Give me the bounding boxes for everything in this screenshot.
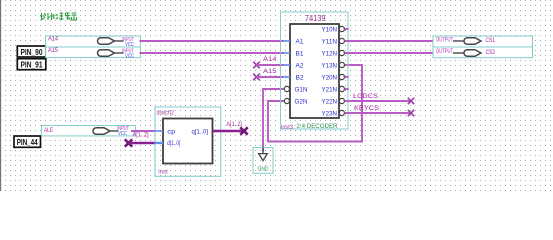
selection box around ALE input row [42,126,136,136]
wire Y12N to port CS2 [345,52,434,54]
svg-text:Y10N: Y10N [322,27,338,34]
svg-text:Y13N: Y13N [322,63,338,70]
port symbol (ALE row) [93,128,110,135]
pin Y11N (inverted) [322,38,345,45]
svg-text:inst3: inst3 [281,125,294,131]
selection box around A15 input row [46,47,141,58]
wire net A14 to pin A1 [140,40,284,42]
pin Y12N (inverted) [322,50,345,57]
port pin line (CS1 row) [453,40,464,42]
no-ERC cross on input bus end [125,139,132,146]
svg-text:Y21N: Y21N [322,87,338,94]
svg-text:CS2: CS2 [486,49,496,56]
selection box around IC 74139 [281,12,349,129]
no-ERC cross on A2 stub [253,62,260,69]
no-ERC cross on B2 stub [253,74,260,81]
selection box around CS1 output row [433,36,533,47]
svg-text:inst: inst [158,170,168,176]
svg-text:A1: A1 [296,39,304,46]
svg-text:LCDCS: LCDCS [353,93,378,100]
no-ERC cross on LCDCS wire end [408,98,414,104]
svg-text:B1: B1 [296,51,304,58]
svg-text:G2N: G2N [295,99,308,106]
svg-text:74139: 74139 [305,14,326,23]
wire net A15 to pin B1 [140,52,284,54]
svg-text:OUTPUT: OUTPUT [436,48,453,55]
svg-text:Y20N: Y20N [322,75,338,82]
port symbol (A14 row) [98,38,115,45]
svg-text:B2: B2 [296,75,304,82]
pin box PIN_44 [14,136,41,147]
dlatch2 pin cp [155,130,163,132]
svg-text:ALE: ALE [44,127,53,134]
svg-text:G1N: G1N [295,87,308,94]
port pin line (ALE row) [110,130,119,132]
bus q[1..0] out of dlatch2 [213,130,245,133]
svg-text:A14: A14 [263,56,277,63]
svg-text:PIN_90: PIN_90 [21,47,43,57]
svg-text:VCC: VCC [118,131,127,137]
wire stub Y21N [345,88,349,90]
wire ALE to dlatch2 cp [131,130,155,132]
wire stub to pin B2 [257,76,284,78]
no-ERC cross on output bus end [240,127,247,134]
port pin line (CS2 row) [453,52,464,54]
svg-text:Y11N: Y11N [322,39,338,46]
svg-text:d[1..0]: d[1..0] [167,140,180,147]
svg-text:A15: A15 [48,47,58,54]
pin G2N (inverted) [284,98,307,105]
pin Y22N (inverted) [322,98,345,105]
wire stub Y10N [345,28,349,30]
port pin line (A15 row) [115,52,124,54]
svg-text:q[1..0]: q[1..0] [192,129,209,136]
svg-text:CS1: CS1 [486,37,496,44]
svg-text:dlatch2: dlatch2 [157,110,175,116]
selection box around ground symbol [253,148,273,174]
svg-text:Y23N: Y23N [322,111,338,118]
svg-text:Y22N: Y22N [322,99,338,106]
ground symbol [258,148,269,173]
svg-text:KEYCS: KEYCS [354,105,379,112]
svg-text:A14: A14 [48,36,58,43]
pin Y23N (inverted) [322,110,345,117]
wire Y23N net KEYCS [345,112,412,114]
wire loop Y13N to G2N [268,65,362,142]
pin A1 [284,39,304,46]
IC 74139 body [290,24,339,118]
pin A2 [284,63,304,70]
wire G1N to ground [263,89,284,152]
svg-text:A[1..2]: A[1..2] [227,121,243,128]
wire stub Y20N [345,76,349,78]
svg-text:A2: A2 [296,63,304,70]
svg-text:PIN_44: PIN_44 [17,137,38,147]
port symbol (CS1 row) [464,38,481,45]
selection box around A14 input row [46,36,141,47]
port pin line (A14 row) [115,40,124,42]
pin Y10N (inverted) [322,26,345,33]
svg-text:VCC: VCC [125,53,134,59]
pin Y13N (inverted) [322,62,345,69]
pin box PIN_90 [17,46,46,57]
svg-text:PIN_91: PIN_91 [21,60,43,70]
bus into dlatch2 d[1..0] [129,142,155,145]
svg-text:Y12N: Y12N [322,51,338,58]
svg-text:A[1..2]: A[1..2] [133,132,149,139]
wire stub to pin A2 [257,64,284,66]
port symbol (CS2 row) [464,50,481,57]
selection box around dlatch2 [155,107,221,176]
pin box PIN_91 [17,59,46,70]
pin Y20N (inverted) [322,74,345,81]
port symbol (A15 row) [98,50,115,57]
svg-text:GND: GND [258,167,269,173]
dlatch2 body [163,119,213,164]
pin B2 [284,75,304,82]
wire Y22N net LCDCS [345,100,412,102]
wire Y11N to port CS1 [345,40,434,42]
dlatch2 pin d[1..0] [155,142,163,144]
svg-text:cp: cp [167,129,175,136]
pin G1N (inverted) [284,86,307,93]
svg-text:OUTPUT: OUTPUT [436,36,453,43]
title text 地址译码器 (green, drawn as glyph strokes) [40,13,76,20]
no-ERC cross on KEYCS wire end [408,110,414,116]
svg-text:2:4 DECODER: 2:4 DECODER [297,123,338,130]
sheet edge line (left) [0,0,2,191]
svg-text:A15: A15 [263,68,277,75]
selection box around CS2 output row [433,47,533,58]
pin B1 [284,51,304,58]
svg-text:VCC: VCC [125,42,134,48]
pin Y21N (inverted) [322,86,345,93]
